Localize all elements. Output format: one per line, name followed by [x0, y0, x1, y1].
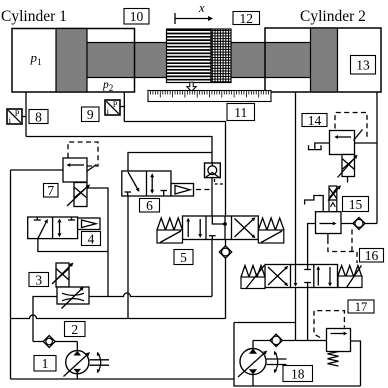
wire: main rail with crossover hop — [11, 315, 226, 318]
svg-text:6: 6 — [146, 198, 153, 213]
svg-text:14: 14 — [308, 113, 322, 128]
svg-text:16: 16 — [365, 248, 379, 263]
svg-text:5: 5 — [180, 250, 187, 265]
wire: pump 1 suction to tank rail — [76, 374, 78, 380]
wire: check valve 2 to pump 1 — [33, 342, 77, 351]
ball check on rail below valve 5 — [219, 246, 231, 258]
x displacement axis arrow — [175, 1, 213, 24]
wire: valve 16 port down to pump line — [295, 288, 297, 341]
label box 17 — [348, 300, 374, 314]
wire: left tank riser — [10, 170, 12, 379]
label box 9 — [82, 107, 100, 122]
pilot line (dashed) of valve 7 — [68, 142, 98, 166]
svg-text:10: 10 — [130, 9, 144, 24]
wire: valve 15 left port down to valve 16 — [308, 224, 316, 265]
wire: cylinder 1 rod port down — [123, 92, 125, 122]
label box 5 — [174, 250, 193, 265]
svg-text:Cylinder 1: Cylinder 1 — [1, 8, 67, 25]
svg-text:P: P — [113, 99, 118, 109]
wire: pump 18 suction down — [252, 375, 254, 387]
wire: valve 16 second port down to pump line — [307, 288, 309, 341]
pilot line (dashed) from valve 6 solenoid — [196, 189, 210, 191]
label box 1 — [34, 356, 56, 372]
pilot line (dashed) valve 15 to valve 16 — [327, 234, 329, 240]
label box 3 — [29, 272, 49, 287]
pilot line (dashed) of relief valve 17 — [314, 311, 344, 338]
proportional valve 5 (4/3) — [157, 216, 284, 243]
wire: cylinder 2 cap-side port down — [376, 92, 378, 224]
wire: pilot check valve to valve 5 port A — [211, 178, 213, 216]
label box 10 — [124, 9, 149, 25]
svg-text:Cylinder 2: Cylinder 2 — [300, 8, 366, 25]
piston rod connecting cylinders and mass — [86, 43, 311, 78]
pressure sensor 8 (p1 transducer) — [7, 108, 26, 125]
cylinder 2 body — [265, 28, 381, 92]
pressure sensor 9 (p2 transducer) — [105, 99, 124, 116]
wire: p2 line to valve 5 port B — [124, 122, 225, 217]
svg-text:17: 17 — [355, 300, 368, 314]
label box 4 — [82, 231, 101, 246]
wire: valve 7 output down — [87, 188, 108, 297]
solenoid valve 4 (3/2) — [28, 217, 100, 239]
wire: pump 18 enclosure left/bottom — [234, 323, 361, 387]
label box 12 — [233, 11, 260, 26]
flow control valve 3 — [52, 263, 89, 309]
variable displacement pump 1 — [64, 351, 110, 377]
pressure reducing valve 7 — [63, 158, 97, 207]
wire: cylinder 1 cap port down — [25, 92, 27, 137]
position indicator arrow (hollow, pointing to scale) — [187, 82, 196, 91]
label box 6 — [140, 198, 160, 213]
label box 13 — [351, 56, 376, 75]
label box 8 — [29, 109, 48, 124]
svg-text:8: 8 — [35, 109, 42, 124]
label box 2 — [65, 322, 86, 337]
svg-text:13: 13 — [356, 58, 370, 73]
position scale / ruler 11 — [148, 91, 271, 102]
pilot line (dashed) of pilot-operated check valve — [215, 179, 225, 184]
wire: valve 6 bottom port to main rail — [127, 196, 129, 319]
wire: valve 5 bottom port A to flow control rail — [211, 240, 213, 297]
proportional valve 16 (4/3 pilot operated) — [241, 265, 362, 289]
solenoid valve 6 (3/2 bypass) — [122, 171, 194, 196]
ball check on pump 18 line — [270, 334, 282, 346]
wire: valve 6 top port to p1 branch — [128, 153, 212, 172]
wire: cylinder 2 rod-side port down to valve 16 — [295, 92, 297, 265]
pilot operated check valve — [205, 163, 221, 178]
label box 14 — [302, 113, 327, 128]
label box 7 — [44, 183, 59, 198]
load mass on rod (striped block) — [167, 29, 212, 83]
svg-text:18: 18 — [291, 366, 305, 381]
wire: flow control rail (valve 3 output) with crossover hop — [89, 293, 212, 297]
svg-text:11: 11 — [234, 105, 247, 120]
label box 18 — [283, 366, 313, 382]
svg-text:9: 9 — [87, 107, 94, 122]
svg-text:4: 4 — [88, 231, 95, 246]
svg-text:2: 2 — [71, 322, 78, 337]
relief valve 17 — [327, 329, 351, 367]
svg-text:15: 15 — [349, 197, 363, 212]
label box 16 — [360, 248, 384, 263]
wire: valve 14 output to cap-side line — [355, 142, 378, 144]
wire: pump 18 pressure line to relief valve 17 — [253, 341, 327, 349]
wire: relief valve 17 outlet to tank — [351, 341, 361, 386]
variable displacement pump 18 — [238, 349, 287, 378]
wire: valve 14 lower port stub — [347, 177, 349, 183]
wire: valve 4 output to valve 7 output line — [38, 239, 108, 252]
pilot line (dashed) of valve 14 — [335, 113, 367, 138]
svg-text:7: 7 — [47, 183, 54, 198]
wire: p1 line to pilot check valve — [26, 137, 212, 164]
wire: cap-side line to valve 15 through ball check — [341, 223, 377, 225]
label box 15 — [343, 197, 369, 212]
svg-text:3: 3 — [35, 272, 42, 287]
wire: bottom tank rail — [11, 378, 235, 380]
check valve 2 — [43, 336, 55, 348]
mass end block (cross hatched) — [211, 29, 231, 83]
wire: valve 7 supply from tank riser — [11, 169, 64, 171]
wire: rail up to valve 5 port B through ball — [225, 240, 227, 319]
wire: flow control valve 3 inlet branch — [33, 297, 57, 342]
cylinder 1 body — [12, 29, 135, 93]
pilot valve 15 — [305, 185, 341, 233]
label box 11 — [227, 104, 255, 121]
svg-text:x: x — [198, 1, 205, 15]
svg-text:12: 12 — [239, 11, 253, 26]
ball check beside valve 15 — [353, 217, 365, 229]
svg-text:1: 1 — [42, 356, 49, 371]
proportional relief valve 14 — [309, 130, 363, 178]
svg-text:P: P — [15, 108, 20, 118]
